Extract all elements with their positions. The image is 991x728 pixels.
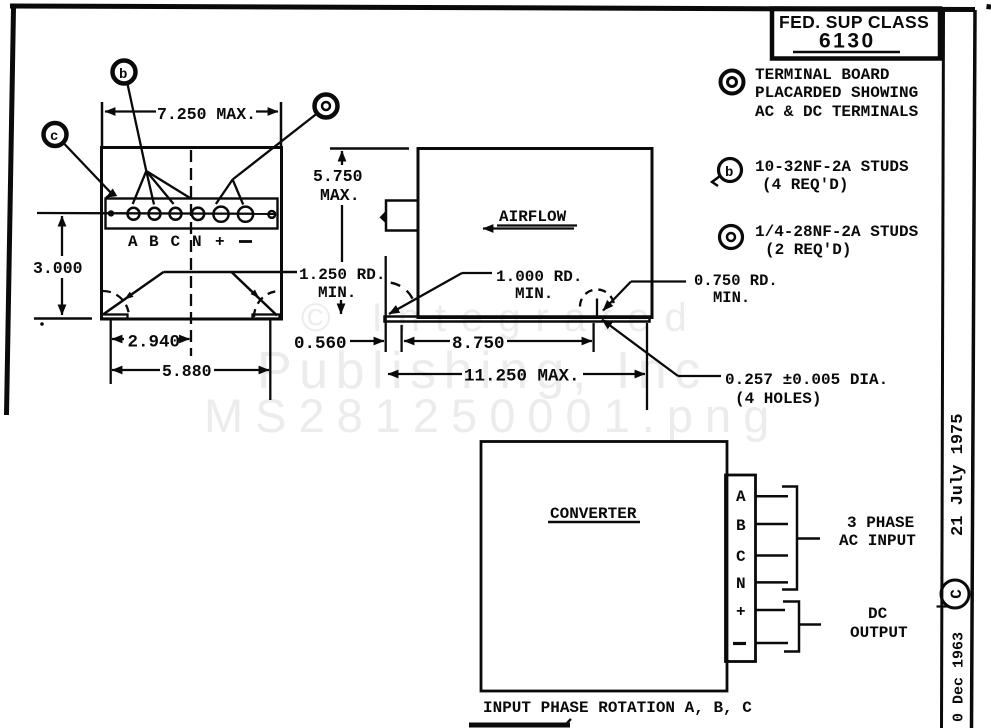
AC bracket tick [797, 537, 820, 540]
svg-text:10-32NF-2A STUDS: 10-32NF-2A STUDS [755, 158, 909, 176]
CONVERTER underline [548, 521, 640, 524]
svg-text:c: c [50, 129, 58, 145]
svg-text:DC: DC [868, 605, 888, 623]
dim 7.250 left arrow [105, 110, 156, 112]
note b circle [712, 159, 742, 187]
6130 underline [793, 51, 900, 54]
strip label minus [733, 642, 746, 645]
side view connector [386, 201, 418, 231]
callout b fan line 2 [146, 171, 154, 205]
svg-text:C: C [948, 589, 966, 599]
callout a leader [233, 114, 317, 180]
dim 5.750 upper arrow [341, 151, 343, 165]
svg-text:5.880: 5.880 [162, 362, 212, 381]
dim 5.880 right arrow [214, 369, 269, 371]
converter terminal strip [726, 475, 756, 662]
DC bracket tick [799, 623, 821, 626]
AIRFLOW underline [497, 224, 577, 226]
callout c circle [44, 123, 67, 146]
converter box [481, 442, 727, 692]
svg-text:C: C [736, 548, 746, 566]
svg-text:A: A [736, 488, 746, 506]
note c circle [721, 71, 744, 94]
board mounting screw right [268, 211, 275, 218]
right mounting foot [253, 315, 280, 319]
svg-text:AC INPUT: AC INPUT [839, 532, 916, 550]
FED SUP CLASS title box [772, 9, 940, 59]
dim 7.250 extension line left [101, 102, 104, 147]
leader 0.257 diagonal [602, 320, 678, 377]
bottom bar tick [567, 719, 571, 723]
terminal stud N [192, 208, 204, 220]
svg-text:(2 REQ'D): (2 REQ'D) [765, 241, 851, 259]
svg-text:0 Dec 1963: 0 Dec 1963 [951, 632, 968, 722]
svg-text:N: N [736, 575, 746, 593]
svg-text:(4 HOLES): (4 HOLES) [735, 390, 821, 408]
dim 5.880 left arrow [112, 369, 160, 371]
corner radius dashed arc left [103, 291, 129, 317]
dim 11.250 right arrow [583, 373, 645, 375]
svg-text:OUTPUT: OUTPUT [850, 624, 908, 642]
leader 0.257 tail [678, 375, 721, 377]
dim 11.250 extension right [646, 323, 648, 410]
svg-text:(4 REQ'D): (4 REQ'D) [762, 176, 848, 194]
svg-text:MIN.: MIN. [318, 284, 356, 302]
left mounting foot [102, 315, 128, 319]
svg-text:1.000 RD.: 1.000 RD. [496, 268, 582, 286]
front view centerline [190, 150, 192, 356]
right hole dashed arc [580, 290, 614, 307]
svg-text:11.250 MAX.: 11.250 MAX. [464, 367, 580, 387]
side view outline [418, 149, 652, 318]
leader 1.000 RD tail [462, 272, 492, 274]
wire N [756, 581, 789, 584]
board mounting screw left [108, 210, 114, 216]
wire plus [756, 609, 786, 612]
dim 5.880 right extension [269, 320, 271, 400]
svg-text:CONVERTER: CONVERTER [550, 505, 637, 523]
dim 3.000 stray dot [40, 322, 44, 326]
AIRFLOW arrow [483, 227, 574, 229]
svg-text:+: + [736, 603, 746, 621]
terminal label minus [239, 240, 252, 243]
svg-text:7.250 MAX.: 7.250 MAX. [157, 105, 256, 124]
bottom partial bar [469, 723, 570, 728]
sidebar right rule [972, 10, 976, 728]
terminal stud B [149, 208, 161, 220]
svg-text:1/4-28NF-2A STUDS: 1/4-28NF-2A STUDS [755, 223, 919, 241]
wire minus [756, 642, 789, 645]
svg-text:0.257 ±0.005 DIA.: 0.257 ±0.005 DIA. [725, 371, 888, 389]
dim 2.940 right arrow [178, 338, 190, 340]
svg-text:3 PHASE: 3 PHASE [847, 514, 914, 532]
dim 0.560 extension right [400, 325, 402, 352]
svg-text:6130: 6130 [819, 30, 876, 53]
svg-text:C: C [171, 233, 181, 251]
dim 5.750 top extension [330, 147, 409, 150]
dim 7.250 extension line right [280, 102, 283, 147]
callout b circle [113, 61, 136, 84]
dim 8.750 line left [419, 340, 450, 342]
page top border [10, 6, 975, 10]
AC input bracket [782, 487, 797, 590]
leader 0.750 RD tail [631, 280, 686, 282]
svg-text:AC & DC TERMINALS: AC & DC TERMINALS [755, 103, 919, 121]
dim 3.000 upper arrow [61, 216, 63, 256]
corner radius left arrowhead [124, 292, 133, 300]
svg-text:0.560: 0.560 [294, 334, 347, 354]
dim 7.250 right arrow [256, 110, 278, 112]
terminal stud A [128, 208, 140, 220]
connector pin [380, 211, 387, 224]
svg-text:B: B [149, 233, 159, 251]
right hole cross vertical [596, 299, 598, 320]
dim 0.560 extension left [385, 256, 387, 352]
corner radius right arrowhead [251, 290, 260, 299]
wire A [756, 495, 789, 498]
svg-text:MAX.: MAX. [320, 186, 360, 205]
DC output bracket [783, 602, 799, 652]
corner radius leader right diagonal [232, 272, 278, 316]
svg-text:TERMINAL BOARD: TERMINAL BOARD [755, 66, 889, 84]
base plate left radius dashed arc [360, 282, 414, 302]
dim 2.940 left arrow [112, 338, 124, 340]
callout a fan line 2 [233, 180, 244, 205]
svg-text:PLACARDED SHOWING: PLACARDED SHOWING [755, 84, 918, 102]
page left border [7, 8, 14, 415]
base plate [385, 317, 650, 322]
svg-text:8.750: 8.750 [452, 334, 505, 354]
dim 11.250 left arrow [388, 373, 462, 375]
svg-text:A: A [128, 233, 138, 251]
note a circle [720, 226, 743, 249]
svg-text:N: N [192, 233, 202, 251]
callout a fan line 1 [216, 180, 233, 205]
callout b leader [128, 84, 147, 171]
label 1.250 RD bg [297, 263, 389, 300]
svg-text:B: B [736, 517, 746, 535]
svg-text:2.940: 2.940 [128, 333, 181, 353]
callout b fan line 1 [133, 171, 147, 204]
corner radius leader horizontal [164, 271, 299, 274]
sidebar tick [937, 605, 949, 607]
callout b fan line 3 [146, 171, 173, 204]
callout b fan line 4 [146, 171, 191, 199]
terminal stud minus [238, 207, 253, 222]
front view terminal board [106, 199, 278, 229]
terminal centre line through screws [37, 212, 274, 215]
dim 5.750 line middle [341, 205, 343, 262]
svg-text:3.000: 3.000 [33, 259, 83, 278]
dim 8.750 right arrow [507, 340, 592, 342]
corner radius leader left diagonal [103, 272, 164, 315]
svg-text:5.750: 5.750 [313, 167, 363, 186]
callout c leader [64, 144, 112, 198]
svg-text:INPUT PHASE ROTATION A, B, C: INPUT PHASE ROTATION A, B, C [483, 699, 752, 717]
svg-text:MS281250001.png: MS281250001.png [204, 389, 781, 442]
dim 5.750 lower arrow [340, 300, 342, 314]
terminal stud C [170, 208, 182, 220]
leader 0.750 RD diagonal [603, 282, 631, 311]
dim 2.940 left extension [110, 320, 112, 384]
svg-text:MIN.: MIN. [713, 289, 750, 307]
corner radius dashed arc right [254, 291, 280, 317]
dim 8.750 left arrow [404, 340, 419, 342]
svg-text:AIRFLOW: AIRFLOW [499, 208, 567, 226]
svg-text:21 July 1975: 21 July 1975 [949, 414, 968, 536]
svg-text:MIN.: MIN. [515, 285, 553, 303]
svg-text:0.750 RD.: 0.750 RD. [694, 272, 778, 290]
page top border right tick [987, 4, 991, 10]
dim 0.560 arrow [350, 340, 384, 342]
svg-text:1.250 RD.: 1.250 RD. [299, 266, 385, 284]
dim 3.000 bottom extension [34, 317, 92, 320]
callout a circle [315, 95, 338, 118]
terminal stud plus [213, 207, 228, 222]
leader 1.000 RD diagonal [389, 273, 462, 314]
wire B [756, 523, 789, 526]
wire C [756, 554, 789, 557]
dim 3.000 lower arrow [61, 278, 63, 315]
front view outline [102, 148, 282, 320]
svg-text:b: b [725, 165, 733, 181]
sidebar copyright circle [941, 580, 969, 608]
svg-text:b: b [119, 67, 127, 83]
sidebar left rule [942, 9, 944, 728]
dim 8.750 extension right [592, 323, 594, 352]
svg-text:+: + [215, 233, 225, 251]
